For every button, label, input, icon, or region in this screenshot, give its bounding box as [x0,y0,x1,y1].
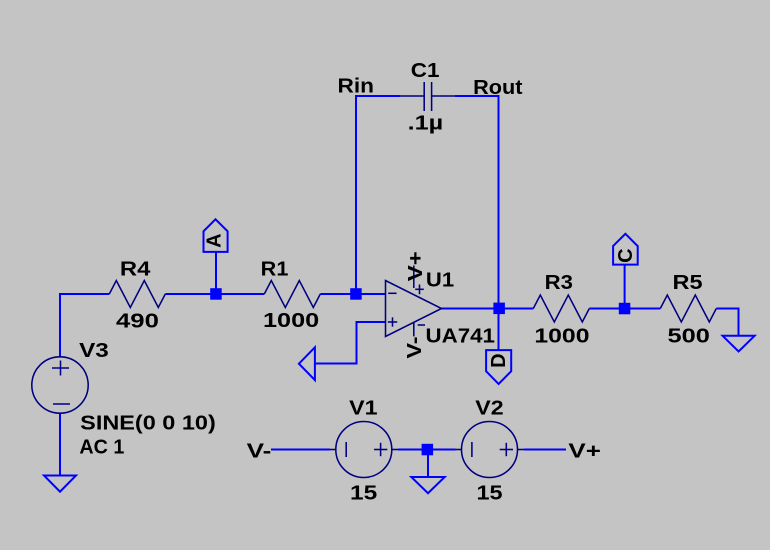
svg-text:AC 1: AC 1 [79,437,124,459]
svg-text:V3: V3 [79,340,109,362]
svg-text:.1µ: .1µ [408,113,444,135]
svg-text:15: 15 [350,482,377,504]
svg-text:V-: V- [404,337,426,359]
svg-text:V1: V1 [349,398,377,420]
svg-text:R1: R1 [261,258,289,280]
svg-text:Rout: Rout [473,77,523,99]
svg-text:V-: V- [247,441,272,463]
svg-text:V+: V+ [568,441,601,463]
svg-text:V+: V+ [405,251,427,281]
svg-text:A: A [204,233,226,247]
svg-text:R5: R5 [673,272,703,294]
svg-text:R4: R4 [120,258,152,280]
svg-text:SINE(0 0 10): SINE(0 0 10) [80,412,216,434]
svg-text:490: 490 [116,311,159,333]
svg-text:U1: U1 [426,269,454,291]
svg-text:Rin: Rin [338,75,375,97]
svg-text:15: 15 [477,482,503,504]
svg-text:500: 500 [668,326,710,348]
svg-text:1000: 1000 [534,325,589,347]
svg-text:UA741: UA741 [426,325,495,347]
svg-text:C: C [615,248,637,262]
svg-text:D: D [488,353,510,367]
svg-text:1000: 1000 [263,310,319,332]
svg-text:C1: C1 [411,60,440,82]
svg-text:R3: R3 [545,272,573,294]
svg-text:V2: V2 [475,398,503,420]
